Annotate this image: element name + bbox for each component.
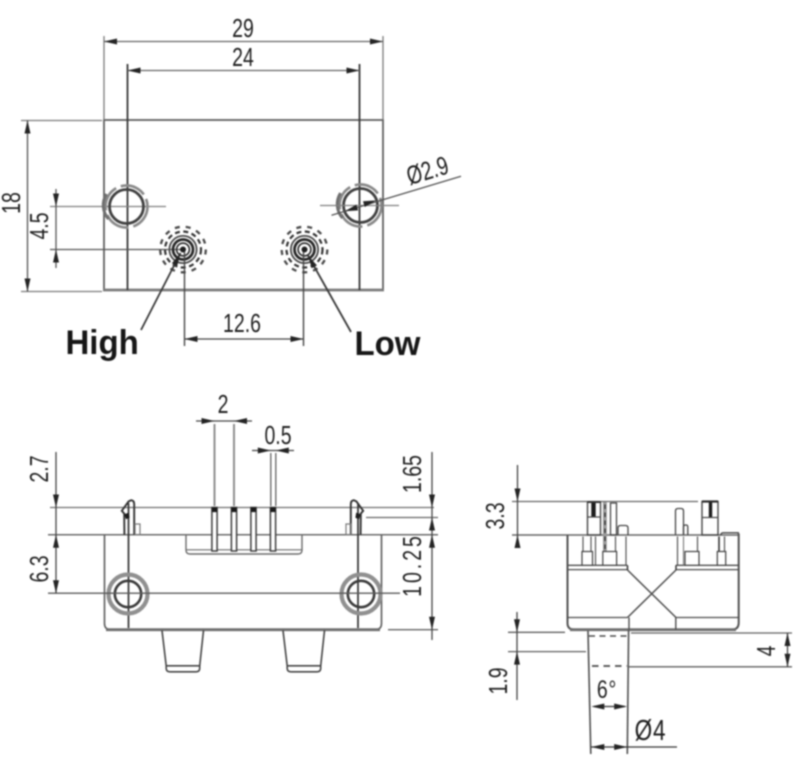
stub pin <box>618 526 628 536</box>
svg-text:0.5: 0.5 <box>264 420 291 449</box>
svg-text:1.9: 1.9 <box>483 667 512 694</box>
extension line hook catch right (1.65) <box>366 517 438 519</box>
dimension line 2 <box>196 420 252 422</box>
pin 4 <box>270 508 275 552</box>
body outline (front view) <box>105 535 382 630</box>
svg-text:Ø2.9: Ø2.9 <box>403 150 452 190</box>
pin pitch extension lines <box>214 424 216 506</box>
grey bar <box>603 502 607 565</box>
body bottom edge thick <box>570 628 736 631</box>
extension line 29 right <box>382 36 384 120</box>
svg-text:29: 29 <box>232 13 254 42</box>
dimension line 4.5 <box>55 189 57 268</box>
svg-text:18: 18 <box>0 192 26 214</box>
X cross <box>628 570 677 618</box>
corner block right <box>721 533 739 535</box>
pin-top extension line (3.3 top) <box>512 501 698 503</box>
dimension line 4 <box>787 633 789 667</box>
dimension line 3.3 <box>517 465 519 548</box>
port High (top view) <box>160 227 206 273</box>
svg-text:24: 24 <box>232 42 254 71</box>
mounting boss circle left (front view) <box>109 575 148 614</box>
extension line 18 bottom <box>21 291 102 293</box>
socket boxes <box>582 552 593 566</box>
extension lines 4 (right) <box>631 632 792 634</box>
svg-text:1.65: 1.65 <box>397 455 426 493</box>
extension lines 1.9 <box>508 631 565 633</box>
side view pin D <box>702 502 718 536</box>
screw hole centerline horizontal left <box>50 206 166 208</box>
svg-text:3.3: 3.3 <box>480 502 509 529</box>
svg-text:2.7: 2.7 <box>24 455 53 482</box>
dimension line 1.9 <box>516 612 518 700</box>
hidden dashes in nozzle <box>589 635 628 637</box>
inner vertical walls <box>582 537 584 566</box>
connector tray <box>186 535 302 554</box>
leader line Low <box>308 256 351 333</box>
pin-top extension line (long) <box>50 507 434 509</box>
pin 2 <box>231 508 236 552</box>
svg-text:6.3: 6.3 <box>24 555 53 582</box>
mounting boss circle right (front view) <box>342 575 381 614</box>
extension line 29 left <box>103 36 105 120</box>
dimension line dia 4 <box>591 746 677 748</box>
body top line with left extension <box>512 534 739 536</box>
svg-text:6°: 6° <box>597 676 617 704</box>
extension line body bottom right (10.25) <box>388 629 438 631</box>
pin 3 <box>251 508 256 552</box>
nozzle right (front view) <box>283 631 325 672</box>
body outline (top view) <box>104 120 383 290</box>
hole centerline vertical right (ext 24) <box>359 64 361 290</box>
svg-text:2: 2 <box>218 389 229 418</box>
screw hole centerline horizontal right <box>320 205 399 207</box>
pin 1 <box>212 508 217 552</box>
screw hole right (top view) <box>344 189 378 223</box>
hidden dashed line <box>604 505 606 557</box>
floor double lines <box>568 564 628 566</box>
nozzle (side view) <box>588 631 591 754</box>
hole centerline horizontal (front view) <box>48 592 400 594</box>
nozzle left (front view) <box>162 631 204 672</box>
hook right centerline <box>357 503 359 628</box>
leader line dia 2.9 <box>332 176 462 215</box>
lower horizontal line <box>568 617 628 619</box>
leader line High <box>141 253 181 330</box>
body bottom edge thick <box>106 628 380 631</box>
dimension line 0.5 <box>252 450 294 452</box>
svg-text:Ø4: Ø4 <box>635 713 667 746</box>
body bottom edge thick <box>103 289 384 292</box>
svg-text:High: High <box>66 325 139 363</box>
dimension line 1.65 / 10.25 <box>431 452 433 640</box>
dimension line 18 <box>27 121 29 292</box>
svg-text:Low: Low <box>355 326 422 364</box>
dimension line 24 <box>128 70 360 72</box>
port extension vertical left <box>184 252 186 346</box>
dimension line 2.7 / 6.3 <box>55 452 57 593</box>
side view pin group A <box>588 502 601 535</box>
body outline (side view) <box>568 534 739 630</box>
svg-text:12.6: 12.6 <box>223 308 261 337</box>
port extension vertical right <box>303 252 305 346</box>
port Low (top view) <box>282 227 328 273</box>
extension line 18 top <box>21 120 102 122</box>
angle 6 deg arrows <box>594 706 625 708</box>
hook right <box>351 500 363 535</box>
svg-text:4.5: 4.5 <box>24 212 53 239</box>
side view pin B <box>611 503 617 535</box>
hole centerline vertical left (ext 24) <box>127 64 129 290</box>
hook left centerline <box>128 503 130 628</box>
dimension line 12.6 <box>185 338 304 340</box>
svg-text:10.25: 10.25 <box>397 533 426 597</box>
body top line with extensions <box>48 534 438 536</box>
hook left <box>122 500 134 535</box>
side view pin C <box>676 509 684 536</box>
port centerline horizontal left (ext 4.5 bottom) <box>50 249 183 251</box>
dimension line 29 <box>104 41 383 43</box>
extension lines 0.5 <box>270 453 272 506</box>
svg-text:4: 4 <box>751 645 780 656</box>
screw hole left (top view) <box>110 190 144 224</box>
